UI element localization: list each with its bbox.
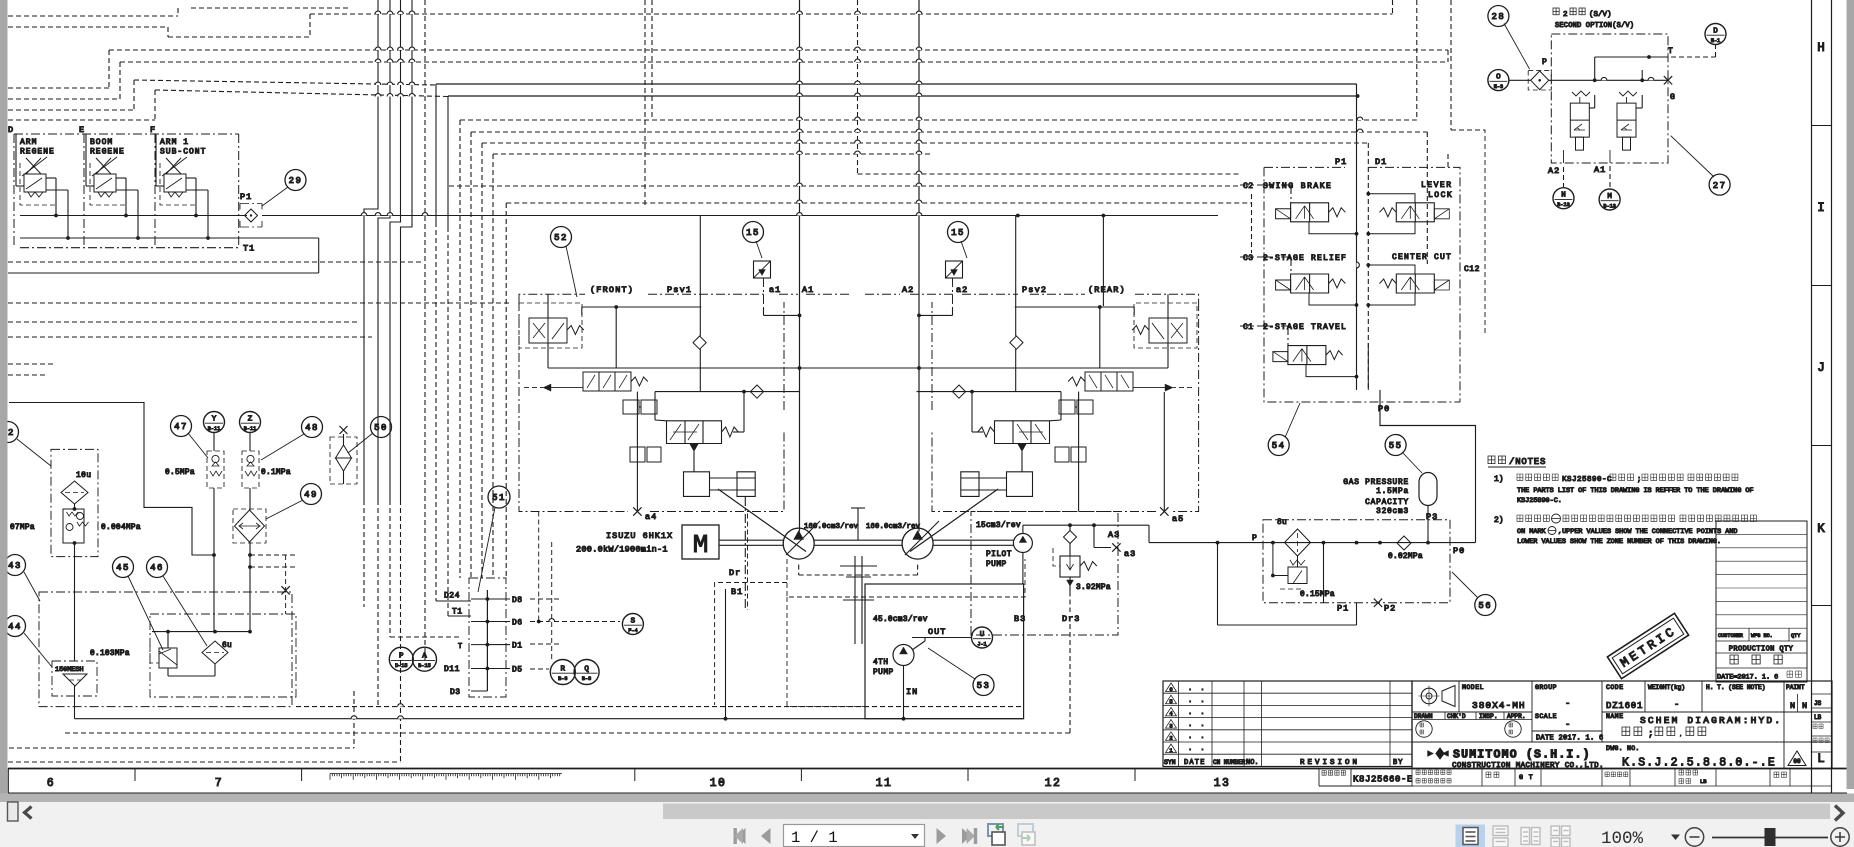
wire top solid into cluster <box>8 402 10 404</box>
item ball 56 <box>1475 595 1496 616</box>
wire filter connect y625 <box>1218 624 1357 626</box>
relief valve 45 <box>159 648 177 668</box>
wire dashed y303 left <box>8 302 512 304</box>
wire hop <box>375 94 381 97</box>
wire dashed y88 left <box>8 87 109 89</box>
svg-text:Psv2: Psv2 <box>1022 285 1047 295</box>
sheet left lower edge <box>7 769 9 794</box>
svg-text:(S/V): (S/V) <box>1589 11 1612 19</box>
wire riser x155 <box>154 90 156 120</box>
pilot solenoid Psv <box>1149 318 1187 343</box>
wire hop <box>855 59 861 62</box>
svg-text:MODEL: MODEL <box>1462 684 1484 691</box>
metric stamp <box>1607 613 1688 678</box>
wire hop <box>797 140 803 143</box>
svg-text:28: 28 <box>1491 12 1505 22</box>
bus vertical A1 x799.5 <box>799 0 801 532</box>
wire dashed drop x1368.3 D1 <box>1367 143 1369 390</box>
wire Z line <box>249 433 251 451</box>
svg-text:D3: D3 <box>450 688 461 697</box>
svg-text:INSP.: INSP. <box>1479 713 1498 720</box>
wire dashed riser x425 <box>424 0 426 660</box>
wire strainer to drain <box>74 686 76 719</box>
leader 47 <box>188 433 208 458</box>
wire hop <box>398 47 404 50</box>
wire spring return <box>733 431 744 433</box>
svg-text:160.0cm3/rev: 160.0cm3/rev <box>866 523 921 531</box>
wire dashed y762 <box>8 761 401 763</box>
wire Psv feed <box>1167 294 1169 318</box>
wire hop <box>387 94 393 97</box>
svg-text:B-11: B-11 <box>244 426 256 432</box>
wire compensator rail <box>917 391 1062 393</box>
svg-text:N: N <box>1561 192 1566 200</box>
wire hop <box>387 213 393 216</box>
wire rear feed x1103.4 <box>1102 216 1104 307</box>
wire A3 branch <box>1093 525 1095 547</box>
sheet right outer border <box>1831 0 1833 793</box>
svg-text:NO.: NO. <box>1246 759 1259 767</box>
wire hop <box>409 82 415 85</box>
wire dashed y132 <box>471 131 1427 133</box>
wire dashed y194 pilot pair <box>506 202 1251 204</box>
wire top dashed y14 long <box>310 13 1393 15</box>
wire dashed riser x493 <box>492 154 494 578</box>
wire dashed C3 drop x1251.5 <box>1251 194 1253 253</box>
leader 15 front <box>756 241 762 258</box>
svg-text:1 / 1: 1 / 1 <box>791 829 838 847</box>
item ball 15 <box>948 222 969 243</box>
valve lever lock <box>1380 208 1397 217</box>
wire riser x134 <box>133 80 135 110</box>
swash link <box>910 489 998 552</box>
hscrollbar right arrow <box>1835 806 1843 821</box>
svg-text:C1: C1 <box>1243 323 1254 332</box>
leader 44 <box>24 633 52 667</box>
sheet bottom border <box>8 768 1847 770</box>
svg-text:CAPACITY: CAPACITY <box>1365 499 1409 507</box>
wire Psv1 drop <box>1015 216 1017 337</box>
svg-text:a5: a5 <box>1172 514 1184 524</box>
box 43 dash-dot <box>39 592 292 707</box>
revision table frame <box>1163 681 1412 767</box>
toolbar next-view icon (disabled) <box>1018 824 1035 845</box>
svg-text:10: 10 <box>710 777 727 790</box>
wire psv rail front <box>548 367 800 369</box>
strainer 150MESH box <box>52 661 97 696</box>
item ball 47 <box>171 416 192 437</box>
reference dwg cell <box>1319 769 1413 787</box>
wire hop <box>916 93 922 96</box>
wire dashed y174 to bank <box>858 173 1241 175</box>
valve C1 2-stage travel <box>1273 352 1288 362</box>
gear shaft inside <box>854 584 856 644</box>
svg-text:KSJ25890-C.: KSJ25890-C. <box>1517 497 1562 505</box>
layout facing button <box>1521 828 1540 845</box>
svg-text:10u: 10u <box>76 472 92 480</box>
wire hop <box>797 129 803 132</box>
solenoid valve BOOM REGENE <box>96 158 111 174</box>
wire D1 dashed <box>530 643 560 645</box>
gear shaft <box>857 508 859 540</box>
manifold port D1 <box>487 644 510 646</box>
svg-text:a3: a3 <box>1124 549 1136 559</box>
wire solid riser x448 <box>447 96 449 227</box>
wire Y line <box>213 433 215 451</box>
svg-text:1.5MPa: 1.5MPa <box>1376 488 1409 496</box>
svg-text:D11: D11 <box>444 665 460 674</box>
wire hop <box>387 11 393 14</box>
wire hop <box>398 94 404 97</box>
revision triangle 00 <box>1788 751 1806 766</box>
svg-text:H: H <box>1817 41 1825 55</box>
svg-text:54: 54 <box>1272 441 1286 451</box>
wire P1 main to manifolds <box>262 215 1218 217</box>
gear housing dashed <box>787 559 1025 597</box>
svg-text:1): 1) <box>1494 475 1504 484</box>
svg-text:D: D <box>1713 28 1718 36</box>
connection U <box>972 627 993 648</box>
leader 48 <box>261 434 304 460</box>
wire P2 port <box>1356 543 1358 603</box>
drive shaft <box>719 539 784 541</box>
svg-text:H. T. (SEE NOTE): H. T. (SEE NOTE) <box>1706 684 1765 691</box>
wire dashed vertical x652 <box>651 0 653 120</box>
wire main drain y718.7 <box>75 718 1024 720</box>
svg-text:B1: B1 <box>731 587 743 597</box>
wire filter out <box>73 541 77 545</box>
item ball 46 <box>147 557 168 578</box>
wire riser x168 <box>167 27 169 37</box>
wire top dashed y37 mid <box>168 36 310 38</box>
wire hop <box>916 140 922 143</box>
wire hop <box>797 213 803 216</box>
wire B1 drain riser <box>725 589 727 719</box>
item ball 27 <box>1709 174 1730 195</box>
svg-text:T1: T1 <box>243 244 255 254</box>
wire D1 bank drop <box>1367 343 1369 390</box>
svg-text:8u: 8u <box>1277 519 1287 527</box>
item ball 55 <box>1385 435 1406 456</box>
svg-text:P0: P0 <box>1453 546 1465 556</box>
wire bank crossovers <box>1357 262 1360 268</box>
svg-text:2: 2 <box>1169 735 1172 742</box>
wire hop <box>855 117 861 120</box>
reducer 47 symbol <box>207 451 224 488</box>
wire dashed y120b left <box>8 119 155 121</box>
svg-text:C12: C12 <box>1464 265 1480 274</box>
svg-text:(FRONT): (FRONT) <box>590 285 634 295</box>
wire hop <box>916 213 922 216</box>
wire hop <box>916 117 922 120</box>
connection N gauge <box>1553 188 1574 209</box>
svg-text:J: J <box>1817 361 1825 375</box>
svg-text:2-STAGE TRAVEL: 2-STAGE TRAVEL <box>1263 323 1347 332</box>
wire solid riser x436 <box>435 84 437 222</box>
wire cluster rail <box>152 631 250 633</box>
svg-text:ARM: ARM <box>20 138 37 147</box>
leader 50 <box>348 433 373 453</box>
wire P1 D1 joins <box>1357 389 1371 391</box>
wire Psv out <box>1167 343 1169 368</box>
svg-text:B-15: B-15 <box>418 663 430 669</box>
svg-text:G: G <box>1670 93 1675 102</box>
svg-text:5: 5 <box>1169 698 1172 705</box>
manifold 51 box <box>469 578 506 697</box>
wire dashed vertical x645 <box>644 0 646 207</box>
wire hop <box>916 200 922 203</box>
wire solid y273 <box>8 272 319 274</box>
wire top dashed y62 long <box>120 61 1448 63</box>
svg-text:LB: LB <box>1700 778 1707 785</box>
port a3 X <box>1112 543 1120 551</box>
wire C12 box dash <box>1451 130 1485 336</box>
option box dash-dot <box>1551 34 1668 163</box>
main pump P2 circle <box>902 528 933 559</box>
filter 49 diamond <box>235 510 265 542</box>
wire Dr dash-dot riser <box>744 497 746 611</box>
wire Z to filter49 <box>249 509 251 510</box>
svg-text:M: M <box>693 530 709 560</box>
wire 4th pump in <box>903 666 905 719</box>
wire hop <box>855 93 861 96</box>
zone tick bottom <box>134 769 136 782</box>
revision warning triangles <box>1166 683 1177 753</box>
wire reg pilot dashed <box>551 387 583 389</box>
wire option feed <box>1509 79 1531 81</box>
wire P1 port <box>1323 543 1325 603</box>
svg-text:6: 6 <box>1169 686 1172 693</box>
svg-text:P1: P1 <box>240 192 252 202</box>
svg-text:0.5MPa: 0.5MPa <box>165 469 195 477</box>
wire valve to P1 line <box>116 177 126 179</box>
wire valve to T line <box>46 189 68 191</box>
compensator lower <box>630 447 661 462</box>
svg-text:T: T <box>1668 47 1673 56</box>
wire hop <box>409 94 415 97</box>
wire filter rail <box>1263 542 1476 544</box>
manifold spine <box>486 590 488 691</box>
wire dashed y80-85 sloped <box>134 80 436 85</box>
bus vertical v4 x412 <box>401 0 413 500</box>
front box bottom dash-dot <box>519 302 784 512</box>
wire dashed y110 left <box>8 109 134 111</box>
svg-text:15: 15 <box>746 228 760 238</box>
wire center cut to D1 <box>1368 293 1415 305</box>
svg-text:CHK'D: CHK'D <box>1447 713 1466 720</box>
wire valve to P1 line <box>186 177 196 179</box>
wire C1 dash-dot in <box>1240 325 1264 327</box>
item ball 53 <box>973 675 994 696</box>
wire hop <box>855 140 861 143</box>
wire pump drains <box>798 565 800 575</box>
filter 10u diamond <box>61 481 88 504</box>
svg-text:D: D <box>8 125 13 135</box>
wire manifold D24 feed <box>436 600 471 602</box>
toolbar previous-view icon <box>988 824 1005 845</box>
wire valve feed from boundary <box>155 134 157 186</box>
value kanji circuit-diagram hydraulic <box>1622 727 1642 736</box>
gear enclosure dashed left <box>715 583 787 706</box>
wire bank row3 to P1 <box>1306 365 1357 377</box>
wire Psv feed <box>547 294 549 318</box>
wire dashed y337 left <box>8 336 372 338</box>
main regulator spool <box>995 421 1050 444</box>
wire dashed y120 <box>460 119 1417 121</box>
wire rear psv2 drop <box>1016 214 1020 218</box>
svg-text:D8: D8 <box>512 596 523 605</box>
wire riser x310 <box>309 14 311 37</box>
svg-text:a2: a2 <box>956 285 968 295</box>
stamp APPR <box>1505 721 1521 737</box>
check valve vertical <box>1010 336 1023 349</box>
wire hop <box>916 151 922 154</box>
valve group boundary dash-dot <box>14 134 239 248</box>
svg-text:OUT: OUT <box>928 627 946 637</box>
wire dashed y185 pilot pair <box>449 185 1240 187</box>
wire valve feed from boundary <box>15 134 17 186</box>
svg-text:15cm3/rev: 15cm3/rev <box>976 522 1021 530</box>
manifold port D5 <box>487 668 510 670</box>
servo cylinder <box>684 472 756 497</box>
svg-text:4TH: 4TH <box>873 659 889 667</box>
wire rear top rail y307 <box>1015 306 1134 308</box>
item ball 43 <box>5 555 26 576</box>
wire hop <box>375 59 381 62</box>
svg-text:CODE: CODE <box>1606 684 1624 691</box>
wire pilot rail <box>1023 524 1149 526</box>
wire drop x1448 <box>1447 50 1449 62</box>
leader 42 <box>17 439 51 466</box>
wire dashed y90-96 sloped <box>155 90 448 97</box>
hscrollbar thumb <box>663 804 1830 820</box>
wire top dashed y8 <box>191 7 350 9</box>
svg-text:SCALE: SCALE <box>1535 713 1557 720</box>
svg-text:47: 47 <box>174 422 188 432</box>
wire valve to cylinder <box>693 452 695 472</box>
svg-text:DRAWN: DRAWN <box>1414 713 1433 720</box>
wire solid main P1 supply y84 <box>436 83 1357 85</box>
wire D5 dashed to R <box>530 668 549 670</box>
svg-text:PRODUCTION QTY: PRODUCTION QTY <box>1729 646 1794 654</box>
swash link <box>718 489 806 552</box>
engine M box <box>682 525 719 559</box>
4th pump box <box>865 584 1024 719</box>
svg-text:0.1MPa: 0.1MPa <box>261 469 291 477</box>
wire valve to P1 line <box>46 177 56 179</box>
wire bank row2 to P1 <box>1309 293 1357 305</box>
wire D8 dashed <box>530 598 560 600</box>
item ball 42 <box>0 422 19 443</box>
sumitomo logo <box>1428 748 1449 760</box>
svg-text:D5: D5 <box>512 666 523 675</box>
svg-text:11: 11 <box>876 777 893 790</box>
item ball 44 <box>5 616 26 637</box>
zone tick bottom <box>1134 769 1136 782</box>
inner box 45 dash-dot <box>150 614 296 697</box>
svg-text:-: - <box>1565 720 1570 730</box>
wire accumulator drop <box>1427 506 1429 543</box>
compensator upper <box>1059 400 1093 414</box>
svg-text:REGENE: REGENE <box>90 148 125 157</box>
wire dashed y262 <box>8 261 421 263</box>
filter 10u box <box>51 449 98 556</box>
svg-text:N: N <box>1790 701 1795 711</box>
wire dashed y143 <box>482 142 1368 144</box>
svg-text:NAME: NAME <box>1606 713 1624 720</box>
wire center cut top <box>1368 265 1415 274</box>
zoom in button <box>1831 828 1849 846</box>
wire spring return <box>972 431 983 433</box>
pilot relief 3.92MPa <box>1064 531 1077 544</box>
svg-text:12: 12 <box>1045 777 1062 790</box>
svg-text:M: M <box>1607 193 1612 201</box>
svg-text:BOOM: BOOM <box>90 138 113 147</box>
hscrollbar left arrow <box>25 807 32 819</box>
wire hop <box>409 11 415 14</box>
wire hop <box>797 81 803 84</box>
wire dashed stub y555 <box>250 554 296 556</box>
wire hop <box>1357 129 1363 132</box>
wire filter branches <box>74 504 76 509</box>
wire front top rail y307 <box>582 306 702 308</box>
viewer bottom shadow band <box>0 794 1854 803</box>
item ball 51 <box>488 486 510 508</box>
wire hop <box>916 183 922 186</box>
wire valve to T line <box>186 189 208 191</box>
svg-text:D1: D1 <box>512 642 523 651</box>
wire 4th pump out <box>912 641 925 650</box>
wire hop <box>409 59 415 62</box>
wire hop <box>916 59 922 62</box>
svg-text:00: 00 <box>1793 758 1801 765</box>
strainer 150MESH symbol <box>63 674 87 686</box>
svg-text:0.103MPa: 0.103MPa <box>90 650 130 658</box>
solenoid valve ARM 1 SUB-CONT <box>166 158 181 174</box>
compensator lower <box>1055 447 1086 462</box>
zone tick right I/J <box>1812 285 1832 287</box>
svg-text:CN NUMBER: CN NUMBER <box>1213 759 1246 766</box>
third angle projection symbol <box>1421 688 1437 704</box>
wire hop <box>916 81 922 84</box>
svg-text:56: 56 <box>1478 601 1492 611</box>
filter diamond option <box>1528 71 1551 90</box>
option valve A2 <box>1570 103 1589 137</box>
wire hop <box>422 213 428 216</box>
wire dashed y154 <box>493 153 931 155</box>
svg-text:52: 52 <box>554 233 568 243</box>
accumulator capsule <box>1419 473 1437 506</box>
svg-text:. .: . . <box>1188 745 1207 753</box>
svg-text:THE PARTS LIST OF THIS DRAWING: THE PARTS LIST OF THIS DRAWING IS REFFER… <box>1517 487 1754 495</box>
wire dashed riser x285 <box>285 555 287 614</box>
leader 52 <box>566 246 577 297</box>
4th pump circle <box>893 645 914 666</box>
port G X <box>1664 76 1672 84</box>
wire option A2 down <box>1563 150 1565 163</box>
wire dashed x1451 riser <box>1450 0 1452 130</box>
wire dashed drop x1427.3 <box>1426 132 1428 264</box>
svg-text:D24: D24 <box>444 592 460 601</box>
svg-text:a4: a4 <box>645 512 657 522</box>
pilot pump circle <box>1013 534 1032 553</box>
revision table rows <box>1163 693 1412 754</box>
bus vertical A2 x919 <box>918 0 920 532</box>
item ball 48 <box>302 417 323 438</box>
leader 27 <box>1671 136 1714 177</box>
valve C3 2-stage relief <box>1276 280 1291 290</box>
svg-text:200.0kW/1900min-1: 200.0kW/1900min-1 <box>576 545 668 555</box>
